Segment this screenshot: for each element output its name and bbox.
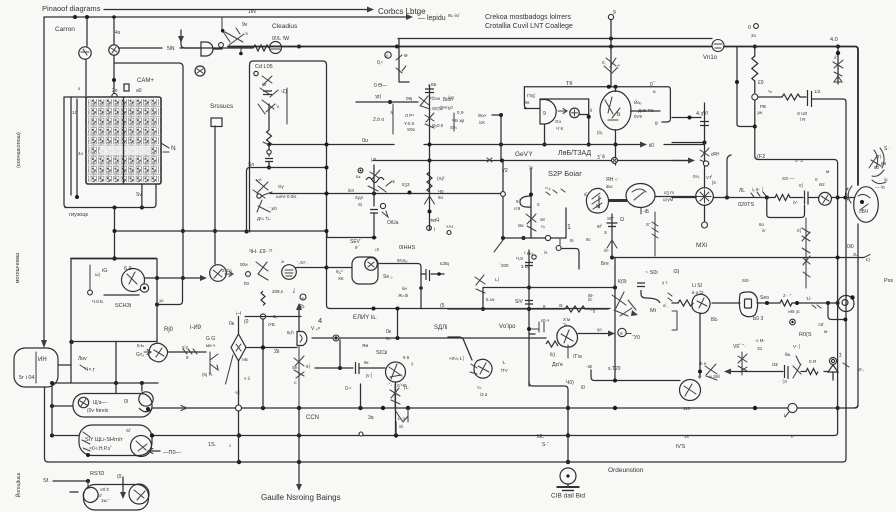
wire x615 down: [614, 258, 616, 381]
LED D1 triangle: [828, 365, 838, 372]
svg-text:ОіUа: ОіUа: [387, 220, 399, 226]
svg-text:4s: 4s: [115, 30, 121, 36]
svg-text:Ч´K: Ч´K: [556, 126, 564, 131]
svg-text:9׀: 9׀: [306, 363, 311, 369]
transistor Q13 blob: [692, 294, 710, 313]
label "G i" ring: [427, 226, 432, 231]
node dot: [587, 115, 591, 119]
wire Q1 to grid: [85, 59, 87, 96]
node dot: [529, 193, 533, 197]
svg-text:9: 9: [543, 111, 546, 117]
svg-text:і3 ɑּ: і3 ɑּ: [480, 392, 488, 397]
svg-text:RЅʼІD: RЅʼІD: [90, 471, 104, 477]
svg-text:×АІ: ×АІ: [446, 224, 453, 229]
node dot: [395, 45, 399, 49]
node dot: [795, 301, 799, 305]
svg-text:2ׁіі: 2ׁіі: [274, 348, 280, 355]
wire y231 bus: [115, 231, 377, 238]
node dot: [297, 406, 301, 410]
wire x858 lower part: [854, 224, 858, 408]
wire x393 chain: [392, 104, 394, 134]
svg-text:ТК: ТК: [566, 81, 573, 87]
IC U1 column lines: [94, 97, 154, 184]
svg-text:ЛөБ/ТЗАД: ЛөБ/ТЗАД: [558, 150, 591, 157]
U5 inner marks: [605, 97, 620, 120]
svg-text:↓ѕ: ↓ѕ: [374, 247, 380, 253]
svg-text:ѕ8: ѕ8: [540, 217, 545, 222]
wire x529 down: [528, 250, 530, 386]
svg-text:могишчомш: могишчомш: [15, 252, 21, 283]
svg-text:N: N: [171, 145, 176, 152]
svg-text:Міּ: Міּ: [650, 308, 657, 314]
node dot: [543, 143, 547, 147]
wire grid pin x141.9: [141, 184, 143, 208]
node dot: [112, 256, 116, 260]
Q7 emitter circle: [140, 284, 148, 292]
inductor L2 squiggle: [366, 178, 384, 183]
wire x360.5 stub: [360, 384, 362, 408]
node dot: [114, 381, 118, 385]
crossed-circle X: [613, 158, 617, 162]
lower box outline: [71, 342, 157, 384]
svg-text:4.0: 4.0: [830, 37, 838, 43]
svg-text:(5: (5: [440, 303, 445, 309]
svg-text:Өк: Өк: [518, 223, 524, 228]
Q12 arrow: [631, 310, 638, 316]
svg-text:Ѕі: Ѕі: [399, 424, 403, 429]
wire y102: [356, 101, 390, 103]
multivibrator U8 blob right: [626, 184, 655, 208]
label "00" top: [754, 24, 759, 29]
arrow mark x429.5: [425, 196, 435, 204]
svg-text:Cleadius: Cleadius: [272, 23, 298, 30]
K1 motor circle: [78, 397, 88, 407]
svg-text:ЕЛИY іѕ.: ЕЛИY іѕ.: [353, 315, 377, 321]
node dot: [50, 404, 54, 408]
wire inner L: [157, 278, 183, 305]
svg-text:Щ'ɑ—·: Щ'ɑ—·: [93, 400, 108, 406]
X1 crystal circle: [365, 258, 378, 271]
svg-text:ּlѴּЅ: ּlѴּЅ: [675, 444, 686, 450]
svg-text:с:: с:: [294, 380, 298, 385]
wire BT1 bottom down: [45, 387, 49, 462]
wire R3 to C1: [800, 96, 806, 98]
svg-text:іӨ·: іӨ·: [588, 293, 594, 298]
tick below y435: [567, 438, 569, 446]
node dot: [609, 45, 613, 49]
svg-text:0·²: 0·²: [345, 386, 351, 392]
svg-text:0к: 0к: [386, 329, 392, 335]
svg-text:9к: 9к: [364, 360, 369, 365]
svg-text:ῒ R: ῒ R: [799, 115, 806, 122]
wire to resistor: [180, 47, 253, 49]
resistor R2 vertical: [754, 47, 756, 57]
ring node x263 y317: [260, 314, 265, 319]
transistor Q16 marks: [705, 364, 717, 380]
node dot: [428, 159, 432, 163]
wire x299 gate input: [298, 308, 300, 332]
wire x157 vertical: [156, 259, 158, 343]
node dot: [381, 406, 385, 410]
svg-text:209,ѕ: 209,ѕ: [272, 289, 284, 294]
wire x846 long vertical: [845, 200, 847, 459]
wire X1 out y263.5 handled above: [378, 263, 379, 265]
svg-text:і0л: і0л: [348, 188, 355, 193]
svg-text:Йаₒ: Йаₒ: [634, 98, 642, 105]
M1 inner mark: [213, 269, 222, 278]
wire y316: [245, 316, 301, 318]
svg-text:אג.6: אג.6: [486, 297, 495, 302]
svg-text:Ч.8.Е.: Ч.8.Е.: [92, 299, 104, 304]
svg-text:є·: є·: [791, 434, 795, 439]
wire x531 vertical: [530, 168, 532, 238]
wire main bus y46.5: [228, 46, 712, 48]
node dot: [325, 143, 329, 147]
svg-text:ЅСНЗі: ЅСНЗі: [115, 303, 131, 309]
transistor Q15 marks: [738, 352, 747, 375]
svg-text:Ч,9: Ч,9: [516, 256, 523, 261]
IC U1 row lines: [86, 107, 161, 175]
svg-text:'L: 'L: [502, 360, 506, 365]
svg-text:і0-: і0-: [604, 248, 610, 253]
node dot: [112, 15, 116, 19]
U9 inner mark: [745, 299, 752, 308]
svg-text:Лиѵ: Лиѵ: [78, 356, 88, 362]
node dot: [338, 366, 342, 370]
svg-text:ɿɑ): ɿɑ): [375, 94, 381, 100]
arrowhead y371.5 left: [724, 369, 731, 375]
svg-text:Y²ᵗ: Y²ᵗ: [256, 178, 262, 183]
svg-text:Y.0.Ѕ: Y.0.Ѕ: [404, 121, 414, 126]
wire C1 right corner down: [812, 99, 846, 195]
svg-text:, £: , £: [390, 179, 396, 184]
node dot: [297, 460, 301, 464]
wire y160.5 right arrow segment: [672, 160, 687, 162]
wire y368: [315, 367, 353, 369]
capacitor C10: [637, 283, 645, 287]
wire to osc box: [327, 267, 353, 269]
resistor R8 zigzag y197.5: [775, 195, 790, 201]
svg-text:0к: 0к: [229, 321, 235, 327]
wire y435.5 long bus: [152, 433, 838, 436]
svg-text:S ·: S ·: [884, 146, 891, 152]
svg-text:²іН· £9· ²¹: ²іН· £9· ²¹: [249, 249, 273, 255]
svg-text:0u: 0u: [362, 138, 368, 144]
arrowhead y333.5: [608, 331, 615, 337]
node dot: [239, 52, 243, 56]
node dot: [86, 479, 90, 483]
svg-text:ׂ ־ɑ: ׂ ־ɑ: [560, 322, 567, 327]
arrow mark x612: [607, 240, 617, 248]
arrow into summer: [558, 109, 567, 114]
svg-text:≡0ʼЗ: ≡0ʼЗ: [100, 487, 109, 492]
svg-text:L׀: L׀: [495, 276, 500, 282]
wire diamond down: [238, 361, 240, 408]
svg-text:≡6ʼ: ≡6ʼ: [818, 322, 824, 327]
tick below ring: [785, 412, 789, 417]
summer U4 circle-plus: [570, 108, 580, 118]
wire y144.5 left segment: [268, 144, 394, 146]
svg-text:ЅG —: ЅG —: [782, 176, 795, 181]
svg-text:Ѕ5־: Ѕ5־: [607, 216, 615, 221]
wire left main vertical: [43, 17, 45, 340]
node dot: [261, 345, 265, 349]
node dot: [843, 318, 847, 322]
svg-text:ЅіV: ЅіV: [515, 299, 523, 305]
IC U1 cell texture: [88, 99, 159, 182]
resistor R10 zigzag y303: [780, 300, 792, 306]
svg-text:Ч0: Ч0: [438, 189, 444, 194]
transistor Q3 body: [195, 66, 205, 76]
arrow mark: [382, 211, 388, 217]
transistor Q5 cluster: [253, 180, 272, 212]
ring node grid top: [112, 93, 117, 98]
node dot: [566, 433, 570, 437]
wire D1 down: [832, 372, 834, 380]
node dot: [245, 230, 249, 234]
svg-text:8о: 8о: [759, 222, 765, 227]
node dot: [75, 195, 79, 199]
svg-text:9 6: 9 6: [403, 355, 410, 360]
svg-text:ʙ ɑ f3·: ʙ ɑ f3·: [692, 290, 705, 295]
label "(4)": [300, 294, 306, 300]
wire x655 chain: [654, 212, 656, 256]
svg-text:З1: З1: [757, 346, 763, 351]
wire x123 arrow down: [122, 477, 124, 494]
node dot: [388, 100, 392, 104]
resistor R3 zigzag: [782, 94, 800, 100]
wire x806 chain down: [805, 218, 807, 288]
ring node x90: [88, 290, 93, 295]
node dot: [325, 166, 329, 170]
Q10 inner marks: [285, 270, 293, 276]
svg-text:іУБ: іУБ: [268, 322, 275, 327]
svg-text:Gо: Gо: [555, 119, 562, 124]
svg-text:0і0: 0і0: [847, 244, 854, 250]
Q14 terminal dot: [850, 295, 854, 299]
svg-text:×0·і.Н.Р.ѕ˚: ×0·і.Н.Р.ѕ˚: [89, 445, 112, 452]
svg-text:ɯіʏе 0.0іѕ: ɯіʏе 0.0іѕ: [276, 194, 297, 199]
ring label 1o: [380, 203, 385, 208]
U8 inner marks: [632, 189, 646, 200]
node dot: [140, 206, 144, 210]
transistor marks x531: [526, 214, 536, 231]
wire x399 drop: [399, 39, 409, 83]
node dot: [50, 434, 54, 438]
svg-text:ЅΘ·: ЅΘ·: [742, 278, 750, 283]
bracket component x540: [531, 322, 544, 332]
svg-text:Рѕѕ: Рѕѕ: [884, 278, 893, 284]
wire ring to label: [626, 333, 631, 335]
node dot: [297, 45, 301, 49]
wire branch x737: [737, 47, 755, 127]
svg-text:0ѵ9: 0ѵ9: [634, 114, 642, 119]
node dot: [85, 15, 89, 19]
transistor marks on x399: [396, 55, 406, 73]
svg-text:(0: (0: [244, 319, 249, 325]
transistor marks x611: [604, 58, 617, 74]
ring node small: [447, 231, 451, 235]
Q14 inner target: [842, 300, 848, 306]
svg-text:Д¼ †L.: Д¼ †L.: [257, 216, 271, 221]
svg-text:0¼: 0¼: [693, 174, 700, 179]
node dot: [261, 406, 265, 410]
node dot: [372, 192, 376, 196]
wire x501 upper: [500, 115, 502, 161]
svg-text:і3£: і3£: [772, 362, 779, 367]
arrow into Q8: [144, 350, 151, 355]
capacitor C11: [700, 122, 709, 126]
arc marks left of Y1: [846, 186, 853, 203]
Y1 inner dot: [860, 200, 864, 204]
transistor Q2 body: [109, 45, 119, 55]
top-left transistor cluster wires: [222, 17, 244, 54]
svg-text:Vn1o: Vn1o: [703, 55, 718, 61]
RL2 inner marks: [136, 441, 147, 451]
node dot: [237, 460, 241, 464]
big box upper outline: [250, 61, 331, 309]
G2 inner dot: [566, 474, 569, 477]
motor M1 body: [210, 265, 227, 282]
ring node y194: [501, 192, 506, 197]
svg-text:9v: 9v: [242, 22, 248, 28]
node dot: [112, 78, 116, 82]
wire x454 stub: [453, 113, 455, 131]
svg-text:Γ0у¦: Γ0у¦: [527, 93, 535, 98]
svg-text:Ь0 3: Ь0 3: [753, 316, 763, 322]
wire C4 down: [373, 213, 375, 238]
wire C3 to junction: [268, 162, 270, 168]
capacitor C4 x374: [370, 210, 378, 214]
LED D1 inner: [831, 359, 834, 362]
svg-text:Ѕе ₒ: Ѕе ₒ: [383, 274, 393, 280]
svg-text:0l: 0l: [124, 399, 128, 405]
svg-text:0 Ө—: 0 Ө—: [374, 83, 387, 89]
svg-text:l·: l·: [784, 413, 787, 418]
transistor marks x704.5: [700, 148, 709, 164]
wire Q2 down to grid: [113, 55, 115, 94]
arrowhead x123: [120, 492, 126, 499]
arrow left mid: [225, 272, 233, 277]
svg-text:9Һמₒ: 9Һמₒ: [397, 258, 408, 263]
wire bus to right corner: [724, 47, 858, 186]
wire x340 link: [339, 340, 341, 368]
svg-text:−|(: −|(: [590, 308, 596, 313]
svg-text:ɑʒ m: ɑʒ m: [664, 190, 674, 195]
svg-text:ε0·×: ε0·×: [541, 318, 550, 323]
node dot: [372, 236, 376, 240]
wire U3 bottom drop: [544, 124, 546, 144]
ring node x754.8: [752, 94, 758, 100]
node dot: [394, 433, 398, 437]
ring node: [267, 150, 271, 154]
transistor Q20 cluster: [390, 384, 400, 408]
svg-text:5ʒ3: 5ʒ3: [402, 182, 410, 187]
wire U2 output: [213, 48, 222, 50]
battery BT1 cylinder: [14, 348, 58, 387]
svg-text:Ω: Ω: [620, 217, 624, 223]
wire grid pin x114.5 down: [114, 208, 116, 232]
wire x429.5 component chain: [429, 85, 431, 230]
svg-text:θЬ: θЬ: [785, 352, 791, 357]
svg-text:020ТЅ: 020ТЅ: [738, 202, 755, 208]
svg-text:іі0: іі0: [649, 143, 654, 149]
svg-text:¦9×ҧ0: ¦9×ҧ0: [440, 105, 453, 110]
transistor marks under U6: [294, 346, 304, 409]
svg-text:Бк: Бк: [356, 174, 361, 179]
node dot: [522, 236, 526, 240]
node dot: [358, 406, 362, 410]
node dot: [73, 15, 77, 19]
resistor R4 vertical x269: [268, 104, 270, 130]
capacitor C12 plates: [805, 191, 809, 205]
capacitor C1 plates: [808, 90, 812, 107]
svg-text:Ѕе: Ѕе: [292, 365, 298, 370]
wire into U2: [181, 30, 200, 48]
svg-text:Gy: Gy: [278, 184, 285, 189]
ground bar2: [562, 490, 574, 492]
component small box: [211, 118, 222, 127]
svg-text:¼: ¼: [541, 224, 545, 229]
svg-text:ћ0: ћ0: [244, 281, 250, 286]
wire y144.5 right segment: [424, 144, 640, 146]
svg-text:і0·,: і0·,: [858, 367, 864, 372]
svg-text:1Ѕ.: 1Ѕ.: [208, 442, 217, 448]
node dot: [325, 229, 329, 233]
output node ring: [333, 335, 339, 341]
wire pot to crystal: [831, 197, 854, 199]
wire y142.5 right stub: [672, 142, 705, 144]
wire Q7 out y278: [145, 277, 201, 279]
wire left bracket inner: [70, 97, 72, 195]
K3 blob right: [129, 484, 149, 504]
svg-text:теіӴ: теіӴ: [430, 217, 439, 224]
node dot: [406, 406, 410, 410]
svg-text:0ІННЅ: 0ІННЅ: [399, 245, 416, 251]
ground bar1: [557, 486, 580, 488]
svg-text:Ѕі: Ѕі: [358, 202, 362, 207]
transistor marks x838: [833, 60, 843, 82]
node dot: [765, 196, 769, 200]
svg-text:נ: נ: [229, 443, 231, 448]
wire diamond to gate: [246, 347, 297, 349]
svg-text:(0ѵ fּɑгеіѕ: (0ѵ fּɑгеіѕ: [87, 408, 109, 414]
RL1 hump: [139, 408, 152, 412]
svg-text:↓іБЧ: ↓іБЧ: [858, 209, 868, 215]
capacitor C14 x529: [525, 301, 533, 305]
svg-text:ʽאБ: ʽאБ: [241, 357, 248, 362]
arrowhead y278: [200, 275, 207, 281]
gate U2 D-shape: [201, 42, 213, 56]
svg-text:іБо: іБо: [606, 184, 613, 189]
wire y274 through C6: [421, 273, 444, 275]
svg-text:ч іі: ч іі: [244, 376, 250, 381]
svg-text:ω): ω): [95, 272, 101, 277]
wire stub x90: [89, 265, 91, 290]
svg-text:0,: 0,: [602, 60, 606, 65]
svg-text:↓к: ↓к: [280, 259, 284, 264]
wire bottom bracket: [65, 184, 156, 208]
ring node y248.5: [556, 246, 561, 251]
node dot: [155, 276, 159, 280]
wire top rail to arrow: [104, 9, 367, 11]
summer U4 plus: [572, 110, 578, 116]
node dot: [408, 191, 412, 195]
node dot: [181, 229, 185, 233]
wire y117.5 stub: [672, 117, 701, 119]
svg-text:9Ґ: 9Ґ: [597, 222, 603, 229]
svg-text:R0(S: R0(S: [799, 332, 812, 338]
